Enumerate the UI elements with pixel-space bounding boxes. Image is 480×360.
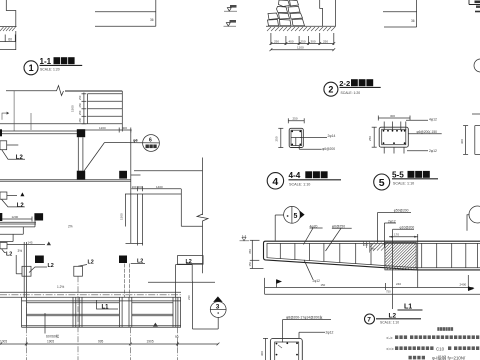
svg-text:300: 300	[390, 114, 395, 118]
title blob 1-1	[54, 57, 75, 64]
svg-text:1200: 1200	[99, 126, 106, 130]
stirrup hooks above	[383, 122, 385, 131]
column B0	[0, 213, 2, 221]
svg-text:1: 1	[29, 63, 34, 73]
column A0	[0, 129, 2, 136]
svg-text:7: 7	[367, 317, 371, 324]
svg-text:1005: 1005	[0, 340, 7, 344]
svg-text:SCALE: 1:20: SCALE: 1:20	[341, 91, 361, 95]
slab edge detail top-right	[383, 11, 417, 13]
svg-text:5: 5	[379, 177, 385, 189]
svg-text:φ50@200: φ50@200	[394, 209, 409, 213]
svg-text:1.4: 1.4	[242, 234, 247, 238]
railing posts elevation	[21, 297, 23, 327]
svg-text:L2: L2	[6, 251, 12, 257]
dim 170	[389, 236, 418, 238]
railing band	[0, 291, 181, 293]
left dim of beam	[251, 240, 253, 268]
post plan right	[74, 266, 83, 276]
level symbol lower	[224, 20, 237, 26]
svg-text:L2: L2	[17, 203, 25, 209]
ground hatch	[0, 27, 16, 31]
beam outline	[379, 127, 408, 147]
svg-text:150: 150	[321, 283, 326, 287]
wall vline x131	[130, 130, 132, 243]
svg-text:250: 250	[78, 103, 82, 108]
wall double below A1	[77, 137, 79, 171]
svg-text:5: 5	[294, 213, 298, 220]
svg-text:36: 36	[150, 18, 154, 22]
svg-text:L2: L2	[186, 259, 192, 265]
left dim	[280, 128, 282, 147]
dim row 2 of 2-2	[271, 49, 334, 51]
svg-text:2φ12: 2φ12	[326, 331, 334, 335]
svg-text:300: 300	[311, 39, 316, 43]
svg-text:250: 250	[78, 110, 82, 115]
svg-text:<=>: <=>	[386, 347, 394, 352]
svg-text:300: 300	[138, 185, 143, 189]
svg-text:1200: 1200	[297, 46, 304, 50]
svg-text:1905: 1905	[147, 340, 154, 344]
left dim bottom section	[265, 338, 267, 360]
callout circle 6	[143, 135, 160, 152]
svg-text:6: 6	[149, 138, 152, 144]
triangle mark on rail	[153, 323, 158, 327]
top-right corner mark	[469, 0, 480, 5]
svg-text:250: 250	[274, 39, 279, 43]
svg-text:SCALE: 1:20: SCALE: 1:20	[40, 67, 60, 71]
svg-text:250: 250	[323, 39, 328, 43]
svg-text:4: 4	[272, 176, 278, 188]
right part of plan	[134, 170, 203, 172]
top dim	[378, 117, 410, 119]
svg-text:4φ12: 4φ12	[429, 117, 437, 121]
L2 beam symbol 3	[0, 243, 7, 249]
svg-text:2φ12: 2φ12	[313, 279, 321, 283]
stair vertical dim	[82, 93, 87, 124]
svg-text:L2: L2	[88, 260, 94, 266]
svg-text:<->: <->	[386, 336, 393, 341]
beam outline	[264, 241, 480, 270]
bottom hooks	[383, 147, 385, 153]
svg-text:200: 200	[132, 185, 137, 189]
dashed wall lines below C2	[124, 264, 126, 298]
svg-text:3%: 3%	[18, 249, 23, 253]
slope arrow below beam	[275, 280, 277, 288]
svg-text:230: 230	[187, 295, 191, 300]
small leader bracket left	[2, 113, 7, 120]
svg-text:240: 240	[396, 282, 401, 286]
left dim	[373, 127, 375, 147]
dashed centerlines down	[25, 297, 27, 360]
right edge circle callout	[469, 206, 480, 223]
svg-text:36: 36	[411, 19, 415, 23]
svg-text:2%: 2%	[68, 225, 73, 229]
open rect with L2	[178, 256, 204, 265]
ground line 2-2	[266, 25, 336, 27]
svg-text:L2: L2	[48, 263, 54, 269]
svg-text:4-4: 4-4	[289, 171, 301, 180]
level symbol upper	[224, 5, 237, 11]
railing elevation rails	[22, 300, 182, 302]
svg-text:φ6@200: φ6@200	[322, 147, 335, 151]
slab edge detail top-left	[95, 11, 156, 13]
dim 1200 mid-left	[0, 218, 32, 220]
svg-text:250: 250	[301, 39, 306, 43]
label 5-5	[374, 174, 390, 190]
column A1	[77, 129, 85, 137]
svg-text:φ6@200(-150: φ6@200(-150	[417, 130, 438, 134]
wall pair down from B-row	[23, 242, 25, 297]
beam line lower	[0, 179, 131, 181]
label 2-2	[324, 82, 338, 96]
small hatch left of block	[370, 242, 385, 251]
svg-text:400: 400	[289, 39, 294, 43]
section symbol 3	[213, 296, 222, 302]
svg-text:2: 2	[328, 85, 333, 95]
svg-text:1200: 1200	[12, 215, 19, 219]
svg-text:1905: 1905	[47, 340, 54, 344]
footing section top-left: wall outline	[6, 0, 16, 27]
svg-text:SCALE: 1:10: SCALE: 1:10	[393, 182, 414, 186]
svg-text:C10: C10	[436, 347, 445, 352]
svg-text:1500: 1500	[120, 213, 124, 220]
svg-text:1500: 1500	[71, 105, 75, 112]
svg-text:170: 170	[394, 233, 399, 237]
stair lines	[0, 91, 122, 132]
svg-text:φ-I级钢 fy=210N/: φ-I级钢 fy=210N/	[432, 355, 466, 360]
column A2	[77, 171, 85, 180]
svg-text:250: 250	[368, 136, 372, 141]
rubble stone foundation 2-2	[268, 0, 305, 26]
main beam double line	[0, 130, 77, 132]
column C1	[35, 256, 44, 264]
svg-text:1400: 1400	[156, 185, 163, 189]
svg-text:90: 90	[175, 335, 179, 339]
leader phi6	[299, 148, 322, 150]
top dim	[288, 120, 304, 122]
svg-text:300: 300	[260, 351, 264, 356]
beam line	[0, 221, 36, 223]
svg-text:φ6: φ6	[133, 139, 138, 143]
grid vline left	[13, 91, 15, 131]
leader 2phi14	[300, 137, 327, 139]
column B1	[34, 213, 43, 220]
dim under stairs	[84, 129, 132, 131]
svg-text:250: 250	[293, 116, 298, 120]
dim lines below beam	[265, 287, 474, 289]
dim row plan right	[131, 188, 181, 190]
svg-text:750: 750	[386, 290, 391, 294]
svg-text:60: 60	[8, 38, 12, 42]
svg-text:350: 350	[248, 249, 252, 254]
svg-text:400: 400	[122, 126, 127, 130]
post plan left	[22, 266, 31, 276]
svg-text:φ8@200-1?φ14@200支: φ8@200-1?φ14@200支	[286, 315, 323, 320]
svg-text:2φ12: 2φ12	[429, 149, 437, 153]
ground hatch 2-2	[267, 27, 335, 31]
column outline	[289, 128, 303, 147]
wall U right of plan	[175, 265, 177, 297]
svg-text:250: 250	[275, 136, 279, 141]
svg-text:150: 150	[248, 261, 252, 266]
column C2	[119, 256, 127, 264]
svg-text:60X60松: 60X60松	[46, 334, 60, 339]
svg-text:2400: 2400	[460, 283, 467, 287]
right edge partial circle top	[474, 59, 480, 72]
label 4-4	[267, 173, 283, 189]
far right partial detail	[465, 126, 467, 155]
bottom dim line	[0, 343, 218, 345]
ground line	[0, 26, 17, 28]
svg-text:145: 145	[28, 241, 33, 245]
svg-text:SCALE: 1:10: SCALE: 1:10	[380, 320, 399, 324]
mid leader	[408, 133, 441, 135]
column A3	[119, 171, 127, 179]
right wall of 2-2	[320, 0, 323, 26]
svg-text:150: 150	[364, 244, 369, 247]
extension line	[15, 31, 17, 50]
svg-text:L2: L2	[16, 155, 24, 161]
L1 label	[97, 300, 119, 309]
60x60 leader	[44, 313, 46, 334]
label 1-1	[24, 61, 38, 75]
svg-text:170: 170	[371, 248, 376, 251]
dim row 1 of 2-2	[271, 33, 334, 45]
cut symbol 5	[275, 214, 284, 216]
svg-text:3: 3	[216, 303, 220, 310]
svg-text:995: 995	[98, 340, 104, 344]
level symbol 1.4	[240, 240, 250, 242]
top line with break	[6, 86, 64, 96]
diagonal stringer to callout	[84, 143, 105, 172]
L2 beam symbol 1	[0, 141, 7, 150]
svg-text:1.2%: 1.2%	[57, 285, 64, 289]
mini dims left of block	[364, 242, 370, 253]
svg-text:250: 250	[78, 118, 82, 123]
L2 beam symbol 2	[0, 192, 7, 199]
beam panels	[280, 243, 477, 267]
svg-text:300: 300	[460, 139, 464, 144]
svg-text:L1: L1	[102, 304, 110, 310]
svg-text:SCALE: 1:10: SCALE: 1:10	[289, 183, 310, 187]
steps bottom-left corner	[0, 226, 35, 228]
svg-text:2φ14: 2φ14	[328, 134, 336, 138]
svg-text:250: 250	[78, 95, 82, 100]
dim ticks under footing	[4, 35, 6, 43]
